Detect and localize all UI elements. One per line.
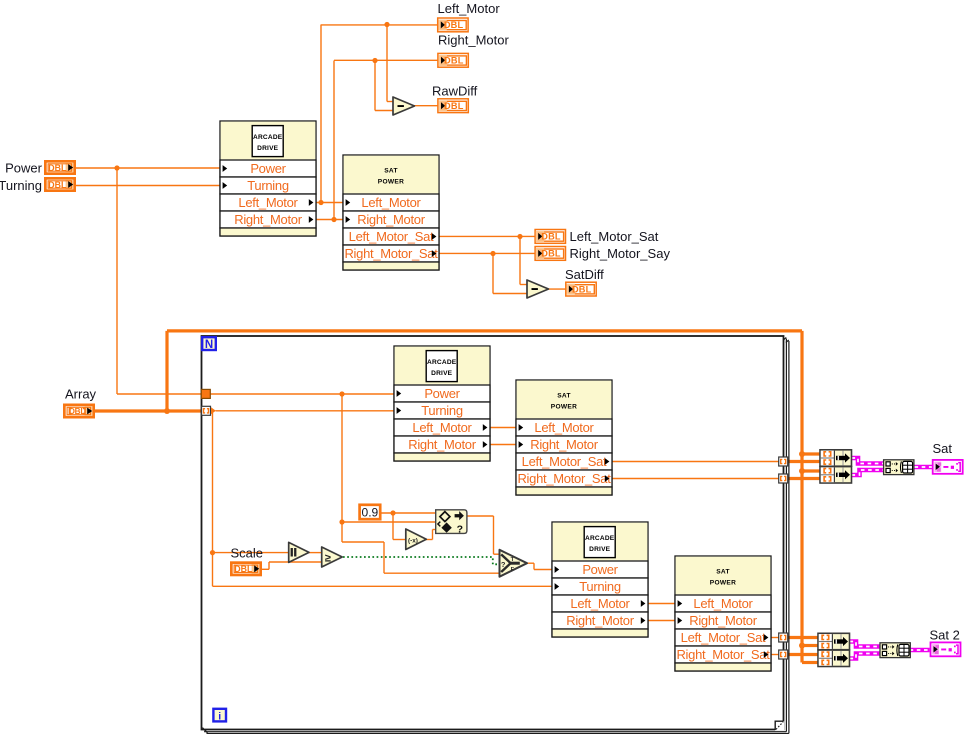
- wire array to build-array1 input1: [802, 452, 820, 455]
- wire Right_Motor up to indicator: [333, 61, 335, 220]
- wire Power down to big select F: [341, 522, 343, 542]
- wire negate output to select input3: [426, 539, 433, 541]
- control Power DBL: [44, 160, 76, 175]
- svg-text:DBL: DBL: [48, 163, 67, 173]
- for-loop iteration terminal i: [213, 709, 226, 723]
- svg-text:DRIVE: DRIVE: [257, 145, 279, 152]
- wire Array up and across top (thick): [165, 331, 168, 411]
- sub-VI ArcadeDrive1: [220, 121, 316, 236]
- build-array node 2: [820, 467, 852, 483]
- cluster wire bundle1 to Sat: [915, 465, 933, 470]
- indicator Right_Motor DBL: [438, 53, 468, 67]
- tunnel out Right_Motor_Sat top: [779, 474, 788, 483]
- wire junction on Power wire: [114, 165, 119, 170]
- sub-VI SatPower3: [675, 556, 771, 671]
- svg-text:Right_Motor: Right_Motor: [408, 437, 476, 452]
- absolute value node: [289, 542, 309, 562]
- tunnel Array indexing: [202, 406, 211, 415]
- wire SatPower1 Left_Motor_Sat to indicator: [439, 235, 535, 237]
- cluster wire build-array4 to bundle2: [850, 654, 880, 659]
- control Array DBL array: [63, 404, 95, 419]
- svg-text:Right_Motor: Right_Motor: [438, 33, 509, 48]
- wire junction array branch 1: [799, 451, 805, 457]
- svg-text:Turning: Turning: [247, 178, 289, 193]
- svg-text:Left_Motor: Left_Motor: [438, 1, 501, 16]
- for-loop folded corner: [775, 721, 784, 730]
- cluster wire build-array2 to bundle1: [852, 470, 884, 475]
- svg-text:N: N: [205, 339, 213, 351]
- svg-text:ARCADE: ARCADE: [427, 359, 457, 366]
- numeric constant 0.9: [360, 505, 381, 520]
- svg-text:Array: Array: [65, 387, 97, 402]
- wire element drop: [212, 411, 214, 587]
- svg-text:Right_Motor: Right_Motor: [234, 212, 302, 227]
- svg-text:Left_Motor: Left_Motor: [238, 195, 298, 210]
- svg-text:Turning: Turning: [0, 178, 42, 193]
- tunnel out Right_Motor_Sat bottom: [779, 650, 788, 659]
- indicator SatDiff DBL: [566, 282, 596, 296]
- svg-text:Left_Motor_Sat: Left_Motor_Sat: [570, 229, 659, 244]
- svg-text:DBL: DBL: [541, 232, 561, 242]
- subtract node SatDiff: [527, 280, 549, 298]
- wire tunnel Power to ArcadeDrive2: [210, 393, 394, 395]
- wire Left_Motor up to indicator: [320, 25, 322, 203]
- svg-text:POWER: POWER: [551, 404, 577, 411]
- wire junction Right_Motor_Sat: [490, 251, 495, 256]
- wire array element to ArcadeDrive2 Turning: [216, 410, 395, 412]
- build-array node 1: [820, 450, 852, 466]
- wire Power to select middle input: [342, 521, 436, 523]
- svg-text:DBL: DBL: [444, 101, 464, 111]
- indicator Sat 2: [931, 642, 961, 656]
- wire junction Array: [164, 408, 170, 414]
- svg-text:Left_Motor: Left_Motor: [570, 596, 630, 611]
- wire array to build-array2 input1: [802, 469, 820, 472]
- wire ArcadeDrive3 Right_Motor to SatPower3: [648, 620, 675, 622]
- svg-text:F: F: [511, 567, 515, 573]
- sub-VI SatPower2: [516, 380, 612, 495]
- svg-text:Power: Power: [424, 386, 460, 401]
- svg-text:Power: Power: [250, 161, 286, 176]
- svg-text:Turning: Turning: [421, 403, 463, 418]
- svg-text:POWER: POWER: [710, 580, 736, 587]
- wire Right_Motor drop to subtract: [374, 61, 376, 111]
- wire SatPower1 Right_Motor_Sat to indicator: [439, 252, 535, 254]
- svg-text:Power: Power: [5, 161, 43, 176]
- wire tunnel4 to build-array4 input1: [788, 653, 819, 656]
- wire 0.9 to select input1: [381, 512, 437, 514]
- boolean wire gte to big select: [343, 557, 500, 564]
- wire Array control to loop tunnel (thick): [94, 409, 202, 412]
- wire tunnel Left_Motor_Sat to build-array1 input2: [788, 460, 821, 463]
- bundle cluster node 1: [884, 460, 914, 475]
- svg-text:T: T: [511, 557, 515, 563]
- wire junction Power to select: [339, 519, 344, 524]
- wire tunnel Right_Motor_Sat to build-array2 input2: [788, 477, 821, 480]
- svg-text:?: ?: [501, 560, 506, 569]
- indicator Left_Motor_Sat DBL: [535, 230, 565, 244]
- svg-text:Sat 2: Sat 2: [930, 628, 960, 643]
- wire select output to big select T: [467, 515, 494, 517]
- svg-text:DBL: DBL: [444, 20, 464, 30]
- sub-VI ArcadeDrive3: [552, 522, 648, 637]
- wire junction 0.9: [390, 510, 395, 515]
- svg-text:Turning: Turning: [579, 579, 621, 594]
- wire Right_Motor_Sat drop to subtract: [492, 254, 494, 294]
- bundle cluster node 2: [880, 643, 910, 658]
- svg-text:Left_Motor: Left_Motor: [412, 420, 472, 435]
- svg-text:SAT: SAT: [716, 569, 730, 576]
- wire Left_Motor drop to subtract: [386, 25, 388, 102]
- wire junction Power inner: [339, 391, 344, 396]
- svg-text:Left_Motor_Sat: Left_Motor_Sat: [681, 630, 766, 645]
- wire ArcadeDrive1 Right_Motor to SatPower1: [316, 219, 343, 221]
- svg-text:≥: ≥: [325, 553, 331, 565]
- svg-text:Right_Motor_Say: Right_Motor_Say: [570, 246, 671, 261]
- svg-text:Right_Motor: Right_Motor: [530, 437, 598, 452]
- wire SatPower3 Right_Motor_Sat to tunnel: [771, 654, 779, 656]
- svg-text:ARCADE: ARCADE: [253, 134, 283, 141]
- greater-or-equal node: [322, 547, 343, 567]
- tunnel out Left_Motor_Sat top: [779, 457, 788, 466]
- control Scale DBL: [230, 561, 262, 576]
- indicator Left_Motor DBL: [438, 18, 468, 32]
- svg-text:?: ?: [457, 524, 463, 536]
- wire SatPower2 Right_Motor_Sat to tunnel: [612, 478, 779, 480]
- cluster wire bundle2 to Sat 2: [910, 648, 930, 653]
- svg-text:(-x): (-x): [408, 538, 418, 545]
- svg-text:DBL: DBL: [69, 407, 85, 416]
- build-array node 3: [818, 633, 850, 649]
- wire junction Right_Motor top: [372, 58, 377, 63]
- negate node: [406, 529, 427, 550]
- svg-text:SAT: SAT: [384, 168, 398, 175]
- wire junction Left_Motor_Sat: [517, 234, 522, 239]
- svg-text:Left_Motor: Left_Motor: [361, 195, 421, 210]
- svg-text:DBL: DBL: [48, 180, 67, 190]
- svg-text:Right_Motor: Right_Motor: [566, 613, 634, 628]
- svg-text:ARCADE: ARCADE: [585, 535, 615, 542]
- wire tunnel3 to build-array3 input1: [788, 636, 819, 639]
- svg-text:DRIVE: DRIVE: [589, 546, 611, 553]
- svg-text:SatDiff: SatDiff: [565, 267, 604, 282]
- wire SatPower2 Left_Motor_Sat to tunnel: [612, 461, 779, 463]
- svg-text:0.9: 0.9: [362, 505, 379, 519]
- wire abs output to gte: [309, 552, 323, 554]
- build-array node 4: [818, 650, 850, 666]
- indicator RawDiff DBL: [438, 99, 468, 113]
- wire junction Left_Motor: [318, 200, 323, 205]
- svg-text:i: i: [218, 710, 221, 722]
- wire ArcadeDrive1 Left_Motor to SatPower1: [316, 202, 343, 204]
- svg-text:Right_Motor_Sat: Right_Motor_Sat: [676, 647, 770, 662]
- svg-text:Right_Motor_Sat: Right_Motor_Sat: [344, 246, 438, 261]
- wire Turning control to ArcadeDrive1 Turning input: [76, 185, 221, 187]
- svg-text:SAT: SAT: [557, 393, 571, 400]
- for-loop count terminal N: [202, 337, 216, 351]
- svg-text:Left_Motor_Sat: Left_Motor_Sat: [522, 454, 607, 469]
- wire ArcadeDrive3 Left_Motor to SatPower3: [648, 603, 675, 605]
- svg-text:DBL: DBL: [572, 284, 592, 294]
- svg-text:Left_Motor: Left_Motor: [534, 420, 594, 435]
- svg-text:DBL: DBL: [541, 249, 561, 259]
- wire Power control to ArcadeDrive1 Power input: [76, 167, 221, 169]
- svg-text:RawDiff: RawDiff: [432, 84, 478, 99]
- wire junction array branch 2: [799, 468, 805, 474]
- svg-text:Right_Motor_Sat: Right_Motor_Sat: [517, 471, 611, 486]
- wire Array down right side (thick): [800, 331, 803, 663]
- wire array to build-array3 input2: [802, 644, 818, 647]
- svg-text:DBL: DBL: [444, 56, 464, 66]
- sub-VI ArcadeDrive2: [394, 346, 490, 461]
- subtract node RawDiff: [393, 97, 415, 115]
- svg-text:Power: Power: [582, 562, 618, 577]
- wire element to abs input: [213, 552, 290, 554]
- wire junction Right_Motor: [331, 217, 336, 222]
- for-loop frame: [202, 336, 789, 734]
- svg-text:Scale: Scale: [231, 546, 264, 561]
- wire 0.9 drop to negate: [392, 513, 394, 540]
- wire Scale control to gte: [262, 568, 269, 570]
- svg-text:Sat: Sat: [933, 441, 953, 456]
- wire junction element scale row: [210, 550, 215, 555]
- wire Left_Motor_Sat drop to subtract: [519, 237, 521, 285]
- wire subtract2 output to SatDiff: [548, 288, 566, 290]
- cluster wire build-array1 to bundle1: [852, 458, 884, 464]
- indicator Right_Motor_Say DBL: [535, 247, 565, 261]
- select node (primitive): [500, 550, 528, 577]
- svg-text:Right_Motor: Right_Motor: [689, 613, 757, 628]
- wire element to ArcadeDrive3 Turning: [213, 585, 553, 587]
- tunnel out Left_Motor_Sat bottom: [779, 633, 788, 642]
- wire array to build-array4 input2: [802, 661, 818, 664]
- wire Power drop inside loop: [341, 394, 343, 522]
- wire junction array branch 3: [799, 643, 805, 649]
- wire ArcadeDrive2 Right_Motor to SatPower2: [490, 444, 516, 446]
- indicator Sat: [933, 460, 963, 474]
- control Turning DBL: [44, 177, 76, 192]
- svg-text:Left_Motor_Sat: Left_Motor_Sat: [349, 229, 434, 244]
- svg-text:Left_Motor: Left_Motor: [693, 596, 753, 611]
- wire subtract output to RawDiff: [414, 105, 438, 107]
- svg-text:Right_Motor: Right_Motor: [357, 212, 425, 227]
- wire ArcadeDrive2 Left_Motor to SatPower2: [490, 427, 516, 429]
- select node (icon): [436, 510, 467, 536]
- wire SatPower3 Left_Motor_Sat to tunnel: [771, 637, 779, 639]
- tunnel Power (scalar): [201, 389, 210, 398]
- svg-text:DRIVE: DRIVE: [431, 370, 453, 377]
- wire junction Left_Motor top: [384, 22, 389, 27]
- svg-text:POWER: POWER: [378, 179, 404, 186]
- wire big select output to ArcadeDrive3 Power: [526, 562, 535, 564]
- sub-VI SatPower1: [343, 155, 439, 270]
- wire Power drop to loop tunnel: [116, 168, 118, 394]
- svg-text:DBL: DBL: [234, 564, 253, 574]
- cluster wire build-array3 to bundle2: [850, 642, 880, 647]
